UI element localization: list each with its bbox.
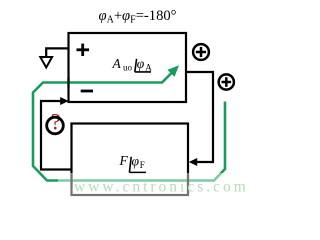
watermark band (58, 173, 254, 197)
svg-text:www.cntronics.com: www.cntronics.com (74, 179, 249, 196)
summing polarity node 1 (circled plus) (193, 44, 209, 60)
feedback block F (72, 124, 189, 196)
label Auo∠φA (112, 56, 153, 73)
wire output (186, 72, 213, 162)
feedback box right border overlap segment (187, 175, 189, 186)
summing polarity node 2 (circled plus) (219, 74, 234, 89)
feedback box left border overlap segment (70, 175, 72, 186)
minus polarity at amplifier input (81, 90, 93, 93)
svg-text:A: A (112, 56, 122, 71)
green feedback loop wire (33, 73, 225, 181)
svg-text:F: F (140, 160, 145, 170)
wire ground stub (46, 48, 68, 56)
svg-text:φ: φ (137, 56, 145, 71)
angle sign of φF (129, 157, 146, 173)
svg-text:uo: uo (123, 63, 133, 73)
svg-text:F: F (119, 153, 129, 168)
arrow into amplifier inverting input (60, 97, 68, 105)
amplifier left border overlap segment (67, 77, 69, 88)
svg-text:A: A (145, 63, 152, 73)
svg-text:φA+φF=-180°: φA+φF=-180° (99, 8, 177, 25)
svg-text:φ: φ (132, 154, 140, 169)
wire feedback input to minus terminal (41, 101, 72, 170)
amplifier block U1 (basic amplifier) (69, 33, 187, 102)
plus polarity at amplifier input (77, 44, 90, 56)
angle sign of φA (135, 59, 151, 72)
label F∠φF (119, 153, 145, 170)
ground symbol (40, 57, 52, 68)
phase marker circle (47, 117, 64, 134)
arrow into feedback block (189, 158, 197, 166)
svg-text:?: ? (51, 110, 61, 135)
green arrow head (167, 65, 179, 77)
